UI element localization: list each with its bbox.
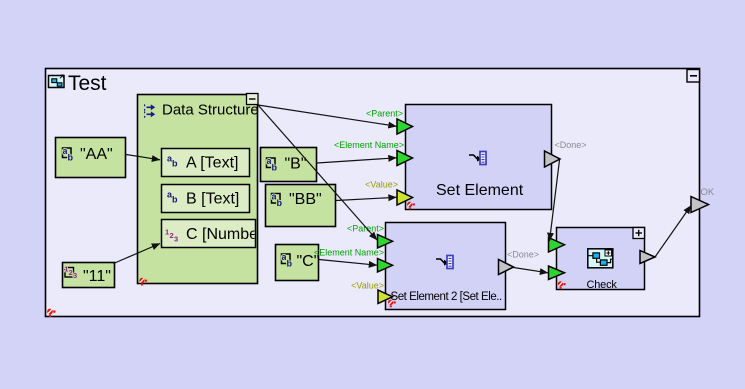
block Set Element [406, 105, 552, 210]
svg-text:<Value>: <Value> [365, 180, 398, 190]
pin input 1 (Check) [549, 238, 565, 253]
block Check [557, 228, 645, 290]
block constant 11 [63, 263, 115, 288]
pin Element Name (Set Element 2) [314, 248, 393, 273]
wire Done (Set Element 2) to input 2 (Check) [514, 268, 549, 273]
row C [Number] [162, 220, 268, 248]
svg-text:<Parent>: <Parent> [347, 224, 384, 234]
pin input 2 (Check) [549, 266, 565, 280]
svg-text:<Element Name>: <Element Name> [334, 140, 404, 150]
icon Check (mini flow) [588, 249, 613, 268]
icon Set Element 2 (arrow to list) [436, 256, 453, 269]
wire B to Element Name (Set Element) [317, 158, 397, 163]
Data Structure minus button [247, 94, 259, 105]
Data Structure error icon [139, 278, 147, 286]
wire Done (Set Element) to input 1 (Check) [550, 160, 560, 241]
block constant AA [56, 138, 126, 178]
svg-text:"AA": "AA" [80, 146, 113, 163]
svg-text:b: b [172, 195, 178, 205]
Check plus button [633, 228, 645, 239]
svg-text:<Parent>: <Parent> [366, 109, 403, 119]
svg-text:Test: Test [68, 72, 107, 95]
pin OK (frame output) [691, 187, 715, 213]
wire Data Structure to Parent (Set Element) [258, 105, 397, 126]
svg-text:A [Text]: A [Text] [186, 155, 238, 172]
pin Element Name (Set Element) [334, 140, 413, 166]
svg-text:<Element Name>: <Element Name> [314, 248, 384, 258]
block constant B [261, 148, 317, 182]
wire Data Structure to Parent (Set Element 2) [258, 105, 377, 240]
svg-text:3: 3 [174, 235, 178, 244]
block constant C [276, 245, 320, 281]
svg-text:"B": "B" [285, 156, 307, 173]
frame Test [46, 69, 700, 317]
block constant BB [266, 185, 336, 227]
svg-text:b: b [287, 259, 293, 269]
svg-text:<Done>: <Done> [507, 250, 539, 260]
svg-text:Set Element 2 [Set Ele..: Set Element 2 [Set Ele.. [391, 291, 503, 303]
icon Data Structure [144, 105, 155, 117]
pin output (Check) [640, 251, 655, 264]
block Data Structure [138, 95, 258, 284]
Check error icon [558, 281, 566, 289]
frame minus button [687, 70, 700, 83]
svg-text:Check: Check [587, 279, 618, 291]
svg-text:3: 3 [73, 271, 77, 280]
icon frame Test [49, 75, 65, 88]
wire C to Element Name (Set Element 2) [319, 260, 377, 266]
wire BB to Value (Set Element) [336, 197, 397, 200]
svg-text:b: b [68, 153, 74, 163]
svg-text:Set Element: Set Element [436, 182, 524, 199]
pin Done (Set Element) [545, 140, 587, 167]
pin Done (Set Element 2) [499, 250, 540, 275]
wire output (Check) to OK [655, 206, 691, 258]
svg-text:<Value>: <Value> [351, 281, 384, 291]
wire 11 to row C [114, 244, 161, 264]
svg-text:OK: OK [701, 187, 715, 198]
row A [Text] [162, 149, 250, 177]
svg-text:"11": "11" [83, 268, 111, 285]
row B [Text] [162, 185, 250, 213]
svg-text:B [Text]: B [Text] [186, 191, 239, 208]
svg-text:b: b [172, 159, 178, 169]
wire AA to row A [126, 155, 160, 160]
frame error icon [47, 309, 55, 317]
pin Value (Set Element) [365, 180, 412, 206]
Set Element error icon [407, 202, 415, 210]
svg-text:b: b [272, 163, 278, 173]
svg-text:Data Structure: Data Structure [162, 102, 259, 119]
pin Value (Set Element 2) [351, 281, 392, 304]
svg-text:<Done>: <Done> [555, 140, 587, 150]
pin Parent (Set Element 2) [347, 224, 393, 249]
svg-text:"BB": "BB" [289, 191, 322, 208]
svg-text:b: b [277, 198, 283, 208]
icon Set Element (arrow to list) [469, 152, 486, 165]
pin Parent (Set Element) [366, 109, 413, 135]
Set Element 2 error icon [388, 300, 396, 308]
block Set Element 2 [386, 223, 506, 310]
